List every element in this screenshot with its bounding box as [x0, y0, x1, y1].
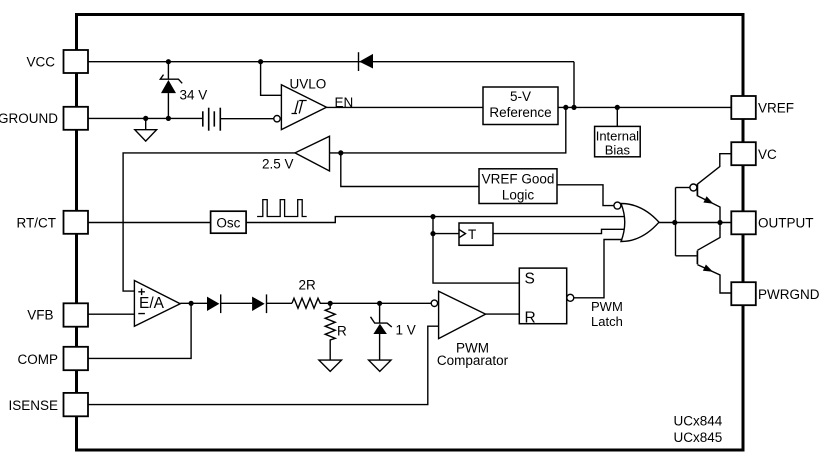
- svg-text:VFB: VFB: [27, 308, 53, 323]
- resistor R: [325, 303, 335, 360]
- diode D2: [207, 294, 221, 313]
- svg-text:EN: EN: [335, 95, 354, 110]
- wire to PWM comparator: [380, 302, 432, 304]
- wire to top driver base: [676, 187, 690, 189]
- wire T output to OR gate: [493, 229, 627, 233]
- wire to VREF Good Logic: [341, 153, 479, 187]
- svg-text:Reference: Reference: [489, 105, 551, 120]
- svg-text:Logic: Logic: [502, 187, 535, 202]
- svg-text:S: S: [525, 271, 535, 288]
- svg-text:2R: 2R: [299, 278, 317, 293]
- pin ISENSE: [8, 393, 88, 416]
- svg-text:UCx845: UCx845: [674, 430, 723, 445]
- wire clock to T and latch S: [433, 217, 519, 284]
- clock waveform glyph: [257, 200, 307, 217]
- transistor Q2 (low-side): [697, 223, 731, 294]
- wire clock branch to T flip-flop: [433, 233, 459, 235]
- gate U3 OR (output logic): [614, 202, 659, 241]
- wire divider node: [330, 302, 379, 304]
- zener diode 34 V: [160, 62, 182, 119]
- node GROUND-zener: [166, 116, 171, 121]
- transistor Q1 (high-side): [697, 154, 731, 223]
- pin VFB: [27, 303, 88, 326]
- zener diode 1 V clamp: [371, 303, 392, 360]
- resistor 2R: [292, 298, 330, 308]
- node VREF-bias: [615, 105, 620, 110]
- block Osc: [211, 211, 247, 233]
- svg-text:VREF: VREF: [758, 101, 794, 116]
- pin GROUND: [0, 107, 88, 130]
- node VCC-UVLO: [258, 59, 263, 64]
- inverter bubble Q1 base: [690, 184, 697, 191]
- node clock-T: [430, 231, 435, 236]
- node clock-or: [430, 214, 435, 219]
- svg-text:R: R: [525, 309, 536, 326]
- wire to bottom driver base: [676, 255, 697, 257]
- block Internal Bias: [595, 107, 641, 157]
- node divider-zener: [377, 301, 382, 306]
- wire E/A output / COMP: [180, 302, 207, 304]
- node totem-OUTPUT: [717, 220, 722, 225]
- svg-text:Comparator: Comparator: [437, 353, 509, 368]
- wire VFB to E/A inverting input: [88, 313, 134, 315]
- svg-text:UCx844: UCx844: [674, 414, 723, 429]
- wire OR output to totem pole / OUTPUT pin: [659, 222, 731, 224]
- svg-text:VREF Good: VREF Good: [482, 171, 555, 186]
- svg-text:1 V: 1 V: [396, 323, 416, 338]
- flip-flop T (toggle): [459, 223, 493, 245]
- svg-text:GROUND: GROUND: [0, 111, 58, 126]
- node VREF-2.5V: [563, 105, 568, 110]
- svg-text:E/A: E/A: [139, 295, 165, 312]
- svg-text:5-V: 5-V: [510, 89, 531, 104]
- pin COMP: [18, 347, 89, 370]
- wire COMP pin to E/A output: [88, 303, 191, 358]
- wire 2.5V buffer output to E/A: [123, 153, 295, 291]
- svg-text:T: T: [468, 227, 476, 242]
- op-amp U4 E/A error amplifier: [134, 281, 180, 327]
- pin VCC: [26, 50, 88, 73]
- wire Osc output / clock: [246, 217, 626, 223]
- device outline border: [77, 15, 744, 451]
- wire GROUND row: [88, 117, 203, 119]
- op-amp U2 2.5-V reference buffer: [295, 136, 330, 171]
- ground (below R): [319, 360, 342, 371]
- block 5-V Reference: [483, 87, 558, 125]
- wire: [221, 302, 252, 304]
- node VCC-zener: [166, 59, 171, 64]
- wire RT/CT to Osc: [88, 222, 210, 224]
- node OR out: [672, 220, 677, 225]
- wire UVLO supply feed: [261, 62, 282, 96]
- wire: [267, 302, 293, 304]
- svg-text:PWM: PWM: [591, 299, 623, 314]
- ground symbol (GROUND pin): [135, 118, 157, 141]
- svg-text:UVLO: UVLO: [290, 76, 327, 91]
- block VREF Good Logic: [479, 169, 557, 204]
- svg-text:Internal: Internal: [596, 129, 639, 144]
- svg-text:34 V: 34 V: [180, 88, 208, 103]
- svg-text:Osc: Osc: [216, 216, 240, 231]
- node VREF-VCC diode: [571, 105, 576, 110]
- svg-text:2.5 V: 2.5 V: [262, 157, 294, 172]
- pin PWRGND: [731, 282, 819, 305]
- svg-text:PWRGND: PWRGND: [758, 287, 820, 302]
- svg-text:VCC: VCC: [26, 55, 55, 70]
- pin VREF: [731, 96, 794, 119]
- wire comparator output to latch R: [486, 313, 520, 315]
- wire ISENSE to PWM comparator: [88, 326, 439, 404]
- svg-text:ISENSE: ISENSE: [8, 398, 58, 413]
- svg-text:Bias: Bias: [605, 143, 631, 158]
- node GROUND-sym: [143, 116, 148, 121]
- node E/A out-COMP: [189, 301, 194, 306]
- latch U6 PWM latch (S-R): [519, 268, 574, 326]
- wire driver split: [675, 188, 677, 256]
- pin OUTPUT: [731, 211, 813, 234]
- svg-text:OUTPUT: OUTPUT: [758, 215, 814, 230]
- diode D1 (VCC bootstrap): [359, 52, 374, 71]
- wire latch output to OR gate: [574, 240, 623, 298]
- wire reference feedback to 2.5V buffer: [330, 107, 566, 152]
- node divider-R: [328, 301, 333, 306]
- pin RT/CT: [17, 211, 89, 234]
- node 2.5V-good-logic: [338, 150, 343, 155]
- svg-text:RT/CT: RT/CT: [17, 215, 57, 230]
- diode D3: [252, 294, 266, 313]
- comparator U5 PWM comparator: [431, 291, 485, 338]
- wire VREF row: [558, 106, 731, 108]
- ground (below 1 V zener): [369, 360, 391, 371]
- pin VC: [731, 142, 777, 165]
- wire VCC row: [88, 61, 574, 63]
- svg-text:VC: VC: [758, 147, 777, 162]
- wire VREF Good Logic to OR gate bubble: [557, 185, 614, 206]
- svg-text:Latch: Latch: [591, 314, 623, 329]
- wire VCC-to-VREF vertical: [573, 62, 575, 108]
- wire EN: [327, 106, 484, 108]
- wire battery to UVLO input: [220, 118, 273, 120]
- svg-text:COMP: COMP: [18, 352, 59, 367]
- op-amp U1 UVLO comparator: [274, 85, 327, 130]
- battery (UVLO threshold source): [203, 108, 221, 131]
- svg-text:R: R: [337, 324, 347, 339]
